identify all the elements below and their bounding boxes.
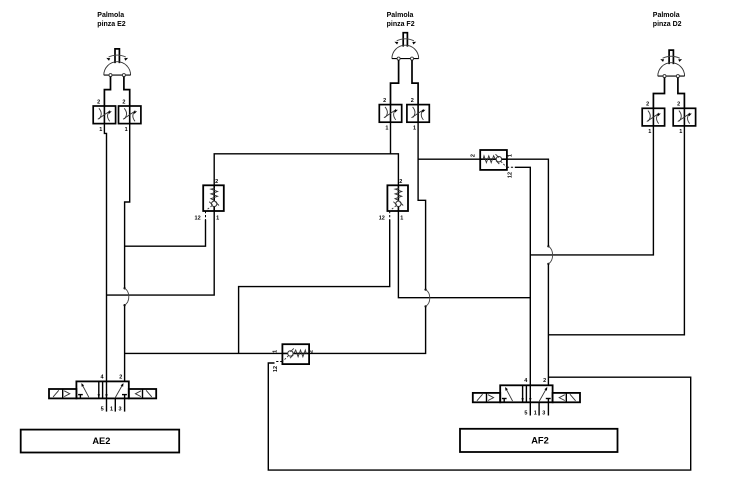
svg-text:pinza D2: pinza D2 — [653, 21, 682, 28]
wire CV2 port 1 to AF2 port4 line — [398, 211, 530, 298]
svg-text:1: 1 — [272, 350, 278, 353]
flow control valve F2 right — [407, 105, 429, 123]
wire F2 right upper — [418, 122, 426, 289]
label port 1 of F2 right flow valve — [413, 125, 416, 131]
svg-text:3: 3 — [118, 407, 121, 413]
label port 1 of D2 right flow valve — [679, 129, 682, 135]
svg-text:2: 2 — [677, 102, 680, 108]
svg-text:2: 2 — [471, 154, 477, 157]
label port 1 of AE2 — [110, 407, 113, 413]
svg-text:2: 2 — [383, 98, 386, 104]
wire CV2 pilot line — [239, 220, 390, 354]
label port 1 of D2 left flow valve — [648, 129, 651, 135]
label port 12 of CV2 — [379, 215, 385, 221]
wire branch F2 right to CV3 port 2 — [418, 158, 480, 160]
gripper F2 finger — [403, 33, 407, 47]
label port 2 of D2 right flow valve — [677, 102, 680, 108]
label Palmola pinza E2 — [97, 12, 126, 28]
label port 2 of F2 left flow valve — [383, 98, 386, 104]
pilot check valve CV4 — [275, 344, 310, 364]
pilot check valve CV2 — [387, 185, 408, 219]
5/2 valve AF2 body — [500, 385, 552, 402]
label box AE2 — [21, 430, 180, 453]
valve AF2 left pilot actuator — [473, 393, 500, 402]
label port 5 of AF2 — [524, 410, 527, 416]
flow control valve D2 right — [673, 108, 695, 126]
flow control valve E2 right — [119, 106, 141, 124]
svg-text:1: 1 — [216, 215, 219, 221]
label Palmola pinza F2 — [387, 12, 415, 28]
svg-text:AE2: AE2 — [92, 436, 110, 446]
label port 12 of CV4 — [273, 366, 279, 372]
wire CV1 port 1 to port4 line — [107, 211, 215, 295]
label port 12 of CV1 — [195, 215, 201, 221]
wire F2 left leg — [391, 60, 399, 105]
gripper F2 body — [392, 45, 419, 60]
label port 2 of AE2 — [119, 374, 122, 380]
valve AE2 bottom port stubs 5 1 3 — [107, 398, 125, 411]
svg-text:AF2: AF2 — [531, 436, 549, 446]
flow control valve F2 left — [379, 105, 401, 123]
svg-text:1: 1 — [508, 154, 514, 157]
svg-text:2: 2 — [122, 99, 125, 105]
gripper E2 body — [104, 62, 131, 77]
svg-text:12: 12 — [273, 366, 279, 372]
svg-text:2: 2 — [309, 350, 315, 353]
wire F2 right leg — [412, 60, 418, 105]
label port 2 of E2 right flow valve — [122, 99, 125, 105]
label port 2 of F2 right flow valve — [411, 98, 414, 104]
svg-text:2: 2 — [399, 179, 402, 185]
wire CV4 port 2 riser — [309, 306, 426, 353]
gripper D2 body — [658, 63, 685, 78]
valve AF2 right pilot actuator — [553, 393, 580, 402]
label port 1 of E2 left flow valve — [99, 127, 102, 133]
wire E2 right lower to AE2 port 2 — [124, 305, 126, 381]
svg-text:1: 1 — [400, 215, 403, 221]
wire E2 left to AE2 port 4 — [104, 124, 106, 382]
svg-text:pinza F2: pinza F2 — [387, 21, 415, 28]
svg-text:12: 12 — [379, 215, 385, 221]
svg-text:2: 2 — [411, 98, 414, 104]
svg-text:1: 1 — [534, 410, 537, 416]
svg-text:1: 1 — [648, 129, 651, 135]
label port 2 of D2 left flow valve — [646, 102, 649, 108]
svg-text:Palmola: Palmola — [387, 12, 414, 19]
5/2 valve AE2 body — [76, 381, 128, 398]
wire AE2 port2 branch to CV4 port 1 — [125, 352, 283, 354]
svg-text:5: 5 — [101, 407, 104, 413]
gripper D2 finger — [669, 50, 673, 64]
valve AF2 bottom port stubs 5 1 3 — [530, 402, 548, 415]
label port 5 of AE2 — [101, 407, 104, 413]
wire hop AF2 port2 riser over pilot branch — [547, 245, 552, 265]
wire CV3 pilot to AF2 port 4 — [515, 167, 531, 385]
label port 1 of AF2 — [534, 410, 537, 416]
pilot check valve CV3 — [480, 150, 515, 170]
svg-text:5: 5 — [524, 410, 527, 416]
label port 1 of CV4 — [272, 350, 278, 353]
flow control valve D2 left — [642, 108, 664, 126]
wire E2 left leg — [104, 77, 110, 106]
svg-text:1: 1 — [385, 125, 388, 131]
label port 3 of AF2 — [542, 410, 545, 416]
label port 2 of CV2 — [399, 179, 402, 185]
label port 2 of E2 left flow valve — [97, 99, 100, 105]
label port 3 of AE2 — [118, 407, 121, 413]
gripper F2 rotation arrows — [394, 39, 416, 45]
wire CV3 port 1 upper — [507, 159, 549, 246]
svg-text:2: 2 — [119, 374, 122, 380]
wire hop CV4 riser over CV2 line — [424, 288, 429, 307]
label port 2 of CV1 — [215, 179, 218, 185]
svg-text:2: 2 — [215, 179, 218, 185]
svg-text:1: 1 — [99, 127, 102, 133]
wire E2 right leg — [124, 77, 130, 106]
gripper D2 rotation arrows — [660, 56, 682, 62]
label port 12 of CV3 — [508, 172, 514, 178]
pilot check valve CV1 — [203, 185, 224, 219]
label port 1 of CV2 — [400, 215, 403, 221]
wire AF2 port 2 riser — [547, 264, 549, 385]
wire F2 left to CV2 — [391, 122, 399, 185]
label port 1 of CV3 — [508, 154, 514, 157]
label port 1 of F2 left flow valve — [385, 125, 388, 131]
svg-text:12: 12 — [508, 172, 514, 178]
wire branch to CV1 pilot — [125, 220, 206, 247]
flow control valve E2 left — [93, 106, 115, 124]
label Palmola pinza D2 — [653, 12, 682, 28]
wire hop AE2 port2 wire over CV1 line — [123, 287, 128, 306]
wire D2 left leg — [653, 78, 664, 109]
svg-text:1: 1 — [413, 125, 416, 131]
svg-text:Palmola: Palmola — [653, 12, 680, 19]
label port 1 of E2 right flow valve — [125, 127, 128, 133]
label port 4 of AE2 — [100, 374, 104, 380]
gripper E2 rotation arrows — [106, 55, 128, 61]
label port 1 of CV1 — [216, 215, 219, 221]
svg-text:Palmola: Palmola — [97, 12, 124, 19]
wire branch AF2 port2 to D2 right — [548, 125, 684, 334]
label port 2 of CV3 — [471, 154, 477, 157]
svg-text:2: 2 — [97, 99, 100, 105]
label port 2 of CV4 — [309, 350, 315, 353]
label box AF2 — [460, 429, 618, 452]
wire CV4 pilot loop — [268, 363, 690, 470]
label port 4 of AF2 — [524, 378, 528, 384]
label port 2 of AF2 — [543, 378, 546, 384]
svg-text:3: 3 — [542, 410, 545, 416]
valve AE2 right pilot actuator — [129, 389, 156, 398]
svg-text:1: 1 — [679, 129, 682, 135]
gripper E2 finger — [115, 49, 119, 63]
svg-text:1: 1 — [110, 407, 113, 413]
svg-text:2: 2 — [646, 102, 649, 108]
svg-text:1: 1 — [125, 127, 128, 133]
svg-text:12: 12 — [195, 215, 201, 221]
wire D2 right leg — [678, 78, 685, 109]
wire CV1 port 2 to F2 left — [214, 154, 390, 186]
wire branch to D2 left — [530, 125, 653, 255]
svg-text:2: 2 — [543, 378, 546, 384]
valve AE2 left pilot actuator — [49, 389, 76, 398]
wire E2 right upper — [125, 124, 130, 289]
svg-text:pinza E2: pinza E2 — [97, 21, 126, 28]
